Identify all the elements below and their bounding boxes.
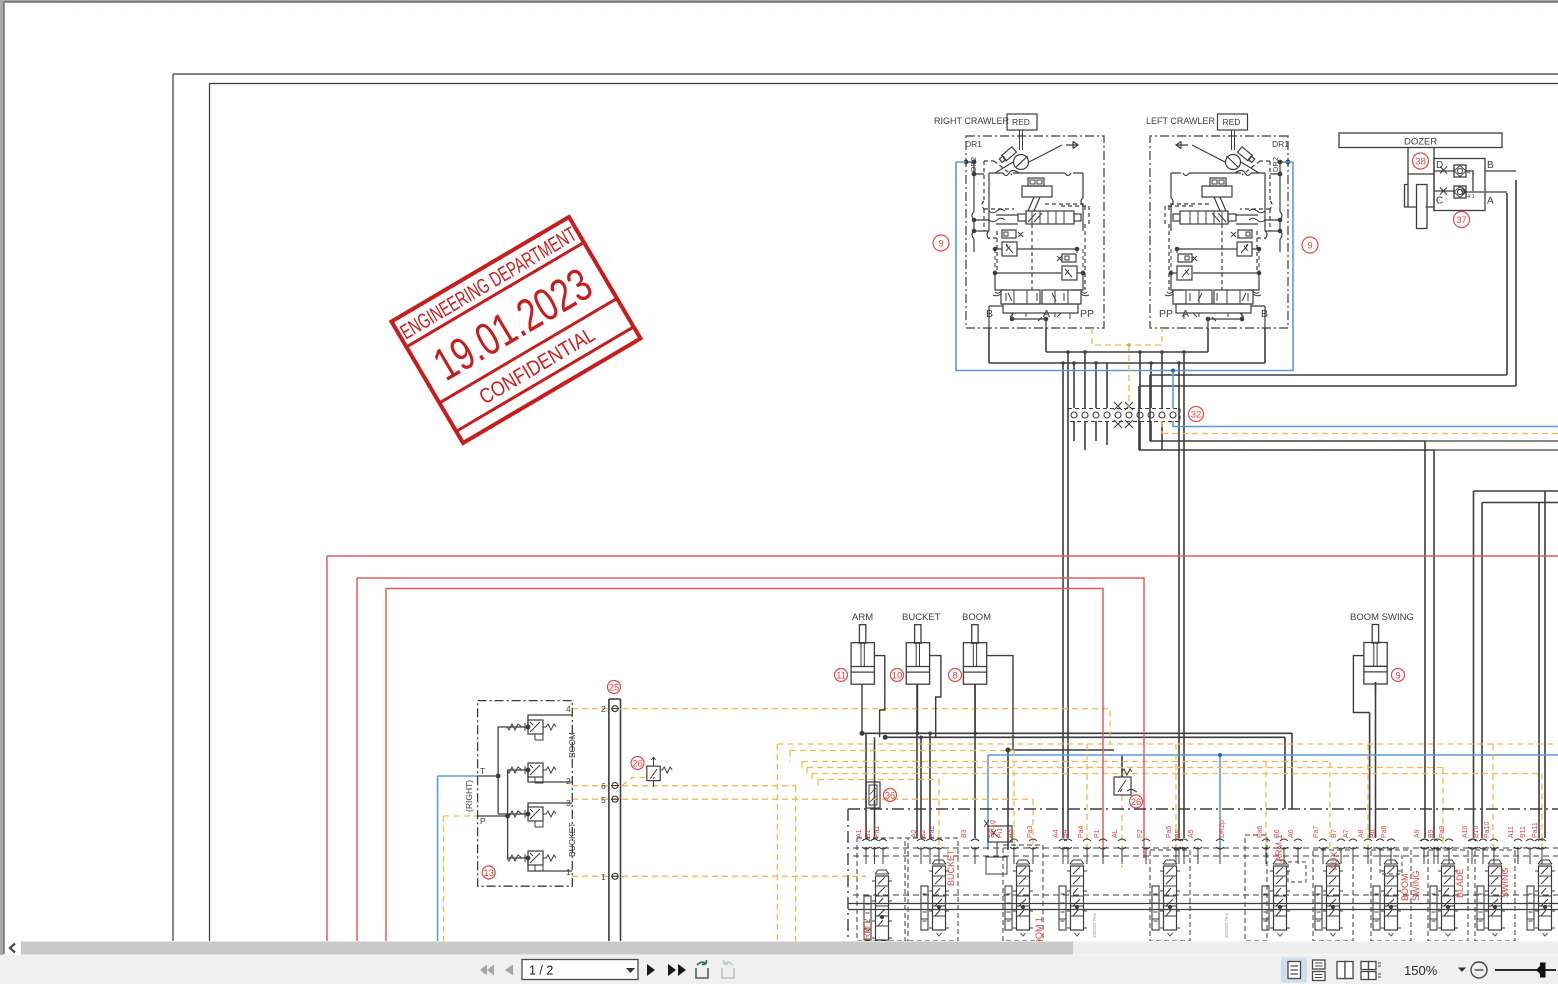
svg-text:38: 38	[1415, 157, 1426, 168]
svg-text:4:1: 4:1	[1467, 170, 1475, 176]
svg-text:37: 37	[1456, 215, 1467, 226]
svg-text:9: 9	[1395, 671, 1400, 682]
svg-text:T: T	[480, 766, 485, 776]
svg-text:A9: A9	[1414, 829, 1421, 838]
svg-text:Pa11: Pa11	[1532, 822, 1539, 838]
svg-text:C: C	[1436, 196, 1443, 207]
svg-text:ARM 1: ARM 1	[1274, 834, 1284, 862]
svg-text:A2: A2	[911, 829, 918, 838]
svg-text:BOOM: BOOM	[567, 732, 577, 758]
svg-text:AL: AL	[1112, 829, 1119, 838]
svg-text:LEFT CRAWLER: LEFT CRAWLER	[1146, 116, 1216, 126]
svg-text:BUCKET: BUCKET	[946, 849, 956, 886]
svg-text:Pi1: Pi1	[997, 828, 1004, 838]
svg-text:DR1: DR1	[965, 139, 982, 149]
svg-text:9: 9	[938, 239, 943, 250]
svg-text:P2: P2	[1137, 829, 1144, 838]
svg-text:AUX: AUX	[1329, 851, 1339, 870]
svg-text:A: A	[1043, 308, 1050, 320]
svg-text:ARM: ARM	[852, 612, 873, 623]
svg-text:4:1: 4:1	[1467, 194, 1475, 200]
svg-text:A: A	[1182, 308, 1189, 320]
svg-text:1: 1	[601, 872, 606, 882]
svg-text:Pa7: Pa7	[1313, 825, 1320, 838]
svg-text:Pa3: Pa3	[1027, 825, 1034, 838]
svg-text:DR2: DR2	[1271, 157, 1280, 172]
svg-text:1 / 2: 1 / 2	[529, 964, 553, 978]
svg-text:B: B	[1261, 308, 1268, 320]
svg-text:2: 2	[601, 704, 606, 714]
svg-text:32: 32	[1191, 410, 1202, 421]
svg-text:D: D	[1436, 160, 1443, 171]
svg-text:B7: B7	[1331, 829, 1338, 838]
svg-text:BOOM: BOOM	[962, 612, 991, 623]
svg-text:150%: 150%	[1404, 963, 1438, 978]
svg-text:2: 2	[566, 776, 571, 786]
svg-text:B4: B4	[1062, 829, 1069, 838]
svg-text:BOOM SWING: BOOM SWING	[1350, 612, 1414, 623]
svg-text:PP: PP	[1159, 308, 1173, 320]
svg-text:35029D Rev: 35029D Rev	[1092, 912, 1097, 938]
svg-text:Pa10: Pa10	[1484, 822, 1491, 838]
svg-text:RED: RED	[1223, 117, 1241, 127]
svg-text:DOZER: DOZER	[1404, 137, 1437, 148]
svg-text:Pa5: Pa5	[1166, 825, 1173, 838]
svg-text:Pa8: Pa8	[1381, 825, 1388, 838]
svg-text:Pa1: Pa1	[874, 825, 881, 838]
svg-text:B11: B11	[1520, 826, 1527, 838]
svg-text:A4: A4	[1053, 829, 1060, 838]
svg-text:A10: A10	[1462, 825, 1469, 838]
svg-text:PP: PP	[1080, 308, 1094, 320]
svg-text:B8: B8	[1370, 829, 1377, 838]
svg-text:B10: B10	[1473, 825, 1480, 838]
svg-text:13: 13	[483, 868, 494, 879]
svg-text:B9: B9	[1428, 829, 1435, 838]
svg-text:36: 36	[885, 791, 896, 802]
svg-text:P1: P1	[1094, 829, 1101, 838]
svg-text:A5: A5	[1188, 829, 1195, 838]
svg-text:(RIGHT): (RIGHT)	[464, 780, 474, 812]
svg-text:BLADE: BLADE	[1455, 868, 1465, 898]
svg-text:BUCKET: BUCKET	[902, 612, 941, 623]
svg-text:A7: A7	[1343, 829, 1350, 838]
svg-text:SWING: SWING	[1500, 868, 1510, 899]
svg-text:A: A	[1487, 196, 1494, 207]
svg-text:SWING: SWING	[1411, 871, 1421, 902]
svg-text:RM 2: RM 2	[862, 918, 872, 940]
svg-text:35029D Rev: 35029D Rev	[1224, 912, 1229, 938]
svg-text:DR2p: DR2p	[1219, 820, 1226, 838]
svg-text:9: 9	[1307, 241, 1312, 252]
svg-text:11: 11	[836, 671, 846, 682]
svg-text:A3: A3	[1007, 829, 1014, 838]
svg-text:4: 4	[566, 704, 571, 714]
svg-text:P: P	[480, 816, 486, 826]
svg-text:5: 5	[601, 795, 606, 805]
svg-text:3: 3	[566, 798, 571, 808]
svg-text:B1: B1	[865, 829, 872, 838]
svg-text:26: 26	[1131, 797, 1142, 808]
svg-text:B: B	[986, 308, 993, 320]
svg-text:DR1: DR1	[1272, 139, 1289, 149]
svg-text:RED: RED	[1012, 117, 1030, 127]
svg-text:8: 8	[952, 671, 957, 682]
svg-text:10: 10	[892, 671, 903, 682]
svg-text:B5: B5	[1175, 829, 1182, 838]
svg-text:1: 1	[566, 867, 571, 877]
svg-text:DR1g: DR1g	[989, 820, 996, 838]
svg-text:A1: A1	[856, 829, 863, 838]
svg-text:BUCKET: BUCKET	[567, 823, 577, 857]
svg-text:A11: A11	[1508, 826, 1515, 838]
svg-text:Pa4: Pa4	[1078, 825, 1085, 838]
svg-text:B3: B3	[961, 829, 968, 838]
svg-text:25: 25	[609, 683, 620, 694]
svg-text:BOOM: BOOM	[1400, 873, 1410, 901]
svg-text:Pa2: Pa2	[929, 825, 936, 838]
svg-text:A8: A8	[1358, 829, 1365, 838]
svg-text:A6: A6	[1288, 829, 1295, 838]
svg-text:DR2: DR2	[969, 157, 978, 172]
svg-text:B: B	[1487, 160, 1494, 171]
svg-text:B2: B2	[920, 829, 927, 838]
svg-text:Pa9: Pa9	[1439, 825, 1446, 838]
svg-text:26: 26	[632, 759, 643, 770]
svg-text:Pa6: Pa6	[1257, 825, 1264, 838]
svg-text:6: 6	[601, 781, 606, 791]
svg-text:RIGHT CRAWLER: RIGHT CRAWLER	[934, 116, 1010, 126]
